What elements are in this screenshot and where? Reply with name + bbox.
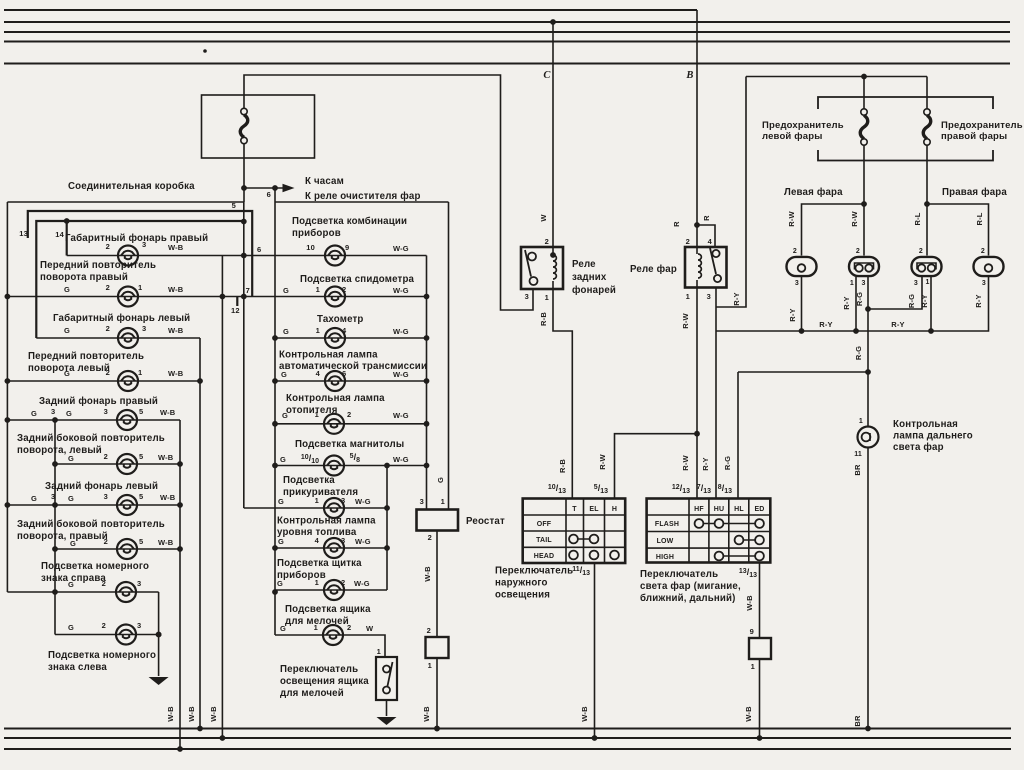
headlamp H3 right inner bbox=[912, 257, 942, 276]
wire: power bus line 3 bbox=[4, 31, 1010, 33]
junction box outline left edge bbox=[6, 202, 8, 592]
svg-text:11: 11 bbox=[854, 451, 862, 458]
svg-text:Соединительная коробка: Соединительная коробка bbox=[68, 181, 195, 192]
table 1 HEAD contacts bbox=[569, 551, 578, 560]
svg-text:T: T bbox=[572, 506, 577, 513]
svg-text:W-G: W-G bbox=[393, 370, 409, 379]
svg-text:G: G bbox=[31, 409, 37, 418]
wire row 6: rear side turn repeater left, y=464 bbox=[55, 463, 180, 465]
junction to instrument-panel box pin 6 bbox=[272, 185, 278, 191]
svg-text:R-Y: R-Y bbox=[732, 292, 741, 305]
svg-text:2: 2 bbox=[347, 623, 351, 632]
svg-text:3: 3 bbox=[51, 407, 55, 416]
svg-text:4: 4 bbox=[708, 237, 713, 246]
svg-text:4: 4 bbox=[315, 536, 320, 545]
rheostat (panel light dimmer) bbox=[417, 510, 459, 531]
svg-text:W-B: W-B bbox=[160, 408, 176, 417]
wire: relay pin 1 R-W down to dimmer switch HF bbox=[696, 288, 698, 499]
wire row M8 fuel level lamp y=548 bbox=[275, 547, 387, 549]
svg-text:поворота, правый: поворота, правый bbox=[17, 531, 108, 542]
svg-text:2: 2 bbox=[427, 626, 431, 635]
svg-text:поворота правый: поворота правый bbox=[40, 272, 128, 283]
svg-text:ближний, дальний): ближний, дальний) bbox=[640, 593, 736, 604]
wire: H2 bottom pins R-Y and R-G bbox=[855, 277, 857, 331]
instrument panel box left edge bbox=[274, 202, 276, 635]
wire: R-G across to dimmer HL bbox=[738, 371, 868, 373]
wire: ED pin down to connector 9, W-B bbox=[759, 563, 761, 639]
wire: right headlamp outer feed R-L bbox=[927, 204, 989, 256]
wire: switch to ground bbox=[386, 700, 388, 716]
svg-text:3: 3 bbox=[137, 579, 141, 588]
svg-text:фонарей: фонарей bbox=[572, 285, 616, 296]
ground for licence plate lamps bbox=[149, 677, 169, 685]
svg-text:G: G bbox=[283, 327, 289, 336]
lamp M2 Подсветка спидометра bbox=[325, 287, 345, 307]
wire: rheostat pin 2 down to connector bbox=[436, 531, 438, 638]
wire row M5 heater lamp y=423.8 bbox=[275, 423, 427, 425]
wire: R-Y bus y=331 bbox=[716, 277, 989, 331]
svg-text:1: 1 bbox=[686, 292, 690, 301]
svg-text:G: G bbox=[64, 369, 70, 378]
svg-text:R: R bbox=[672, 221, 681, 227]
wire: power bus line 4 bbox=[4, 41, 1010, 43]
svg-text:TAIL: TAIL bbox=[536, 537, 552, 544]
svg-text:1: 1 bbox=[441, 497, 445, 506]
wire: lamp return rows 9-10 to ground, x=158.6 bbox=[158, 592, 160, 676]
svg-text:G: G bbox=[278, 537, 284, 546]
svg-text:3: 3 bbox=[51, 492, 55, 501]
wire: left headlamp outer feed R-W bbox=[802, 204, 865, 256]
lamp M10 Подсветка ящика для мелочей bbox=[323, 625, 343, 645]
svg-text:R-Y: R-Y bbox=[920, 294, 929, 307]
wire row M6 radio illumination y=465.5 bbox=[275, 465, 427, 467]
svg-text:12: 12 bbox=[231, 306, 240, 315]
svg-text:Подсветка номерного: Подсветка номерного bbox=[41, 561, 149, 572]
lamp L7 Задний фонарь левый bbox=[117, 495, 137, 515]
svg-text:Задний фонарь правый: Задний фонарь правый bbox=[39, 396, 158, 407]
svg-text:2: 2 bbox=[341, 578, 345, 587]
svg-text:G: G bbox=[282, 411, 288, 420]
svg-text:W: W bbox=[539, 214, 548, 222]
svg-text:R-W: R-W bbox=[787, 210, 796, 226]
fuse right headlamp bbox=[926, 77, 928, 110]
headlamp H4 right outer bbox=[974, 257, 1004, 276]
lamp Контрольная лампа дальнего света фар bbox=[858, 427, 879, 448]
svg-text:3: 3 bbox=[707, 292, 711, 301]
svg-text:ED: ED bbox=[754, 506, 764, 513]
table 2 FLASH contacts bbox=[699, 523, 760, 525]
svg-text:HIGH: HIGH bbox=[656, 554, 674, 561]
svg-text:G: G bbox=[68, 454, 74, 463]
svg-text:5: 5 bbox=[139, 407, 143, 416]
svg-text:2: 2 bbox=[981, 248, 985, 255]
wire: indicator to ground bus BR bbox=[867, 448, 869, 729]
svg-text:3: 3 bbox=[341, 536, 345, 545]
svg-text:Подсветка магнитолы: Подсветка магнитолы bbox=[295, 439, 404, 450]
svg-text:света фар (мигание,: света фар (мигание, bbox=[640, 581, 741, 592]
svg-text:1: 1 bbox=[138, 283, 142, 292]
svg-text:G: G bbox=[283, 286, 289, 295]
svg-text:1: 1 bbox=[315, 578, 319, 587]
switch table Переключатель наружного освещения bbox=[523, 499, 626, 564]
svg-text:2: 2 bbox=[545, 237, 549, 246]
svg-text:знака слева: знака слева bbox=[48, 662, 107, 673]
svg-text:3: 3 bbox=[137, 621, 141, 630]
headlamp H2 left inner bbox=[849, 257, 879, 276]
svg-text:правой фары: правой фары bbox=[941, 131, 1007, 142]
svg-text:задних: задних bbox=[572, 272, 607, 283]
svg-text:6: 6 bbox=[267, 190, 271, 199]
ink speck bbox=[203, 49, 207, 53]
lamp M8 Контрольная лампа уровня топлива bbox=[324, 538, 344, 558]
svg-text:R-W: R-W bbox=[598, 453, 607, 469]
svg-text:2: 2 bbox=[104, 452, 108, 461]
svg-text:3: 3 bbox=[914, 280, 918, 287]
wire row M9 panel illumination y=590 bbox=[275, 589, 387, 591]
svg-text:HF: HF bbox=[694, 506, 704, 513]
wire row 8: rear side turn repeater right, y=549 bbox=[55, 548, 180, 550]
lamp M5 Контрольная лампа отопителя bbox=[324, 414, 344, 434]
svg-text:G: G bbox=[66, 409, 72, 418]
svg-text:G: G bbox=[64, 285, 70, 294]
svg-text:К часам: К часам bbox=[305, 176, 344, 187]
svg-text:2: 2 bbox=[104, 537, 108, 546]
svg-text:W-B: W-B bbox=[168, 369, 184, 378]
svg-text:1: 1 bbox=[377, 647, 381, 656]
svg-text:R-G: R-G bbox=[907, 294, 916, 308]
wire: fuse feed line y=76.5 bbox=[746, 76, 927, 78]
svg-text:W-G: W-G bbox=[393, 244, 409, 253]
wire: W-B return rows 3-4, x=200 bbox=[199, 338, 201, 729]
svg-text:W-B: W-B bbox=[423, 566, 432, 582]
svg-text:света фар: света фар bbox=[893, 442, 944, 453]
svg-text:W-G: W-G bbox=[355, 537, 371, 546]
lamp L10 Подсветка номерного знака слева bbox=[116, 625, 136, 645]
svg-text:W-B: W-B bbox=[580, 706, 589, 722]
svg-text:13: 13 bbox=[19, 229, 28, 238]
svg-text:Подсветка: Подсветка bbox=[283, 475, 335, 486]
svg-text:Подсветка ящика: Подсветка ящика bbox=[285, 604, 371, 615]
svg-text:3: 3 bbox=[420, 497, 424, 506]
wire: relay pin 1 R-B to light switch EL bbox=[553, 289, 572, 499]
svg-text:1: 1 bbox=[315, 496, 319, 505]
svg-text:К реле очистителя фар: К реле очистителя фар bbox=[305, 191, 421, 202]
svg-text:1: 1 bbox=[316, 285, 320, 294]
svg-text:1: 1 bbox=[850, 280, 854, 287]
svg-text:W-G: W-G bbox=[393, 455, 409, 464]
svg-text:3: 3 bbox=[525, 292, 529, 301]
svg-text:6: 6 bbox=[342, 369, 346, 378]
wire: power bus line 5 bbox=[4, 63, 1010, 65]
svg-text:EL: EL bbox=[589, 506, 599, 513]
svg-text:Контрольная: Контрольная bbox=[893, 419, 958, 430]
wire row M3 tachometer y=338 bbox=[275, 337, 427, 339]
lamp L5 Задний фонарь правый bbox=[117, 410, 137, 430]
switch table Переключатель света фар bbox=[647, 499, 771, 563]
wire: power bus line 2 bbox=[4, 21, 1010, 23]
wire row 3: side marker lamp left, y=338 bbox=[36, 337, 200, 339]
svg-text:6: 6 bbox=[257, 245, 261, 254]
svg-text:Реостат: Реостат bbox=[466, 516, 505, 527]
svg-text:Габаритный фонарь левый: Габаритный фонарь левый bbox=[53, 313, 190, 324]
wire: power bus line 1 (top) bbox=[4, 9, 697, 11]
svg-text:G: G bbox=[277, 579, 283, 588]
wire row 4: front turn repeater left, y=381 bbox=[6, 380, 200, 382]
svg-text:W-B: W-B bbox=[158, 538, 174, 547]
fuse bracket top bbox=[818, 97, 993, 109]
fuse bracket bottom bbox=[818, 150, 993, 161]
svg-text:G: G bbox=[68, 580, 74, 589]
svg-text:прикуривателя: прикуривателя bbox=[283, 487, 358, 498]
svg-text:3: 3 bbox=[104, 492, 108, 501]
svg-text:G: G bbox=[280, 624, 286, 633]
svg-text:2: 2 bbox=[106, 324, 110, 333]
svg-text:Задний боковой повторитель: Задний боковой повторитель bbox=[17, 519, 165, 530]
svg-text:R-G: R-G bbox=[723, 456, 732, 470]
svg-text:W-B: W-B bbox=[745, 595, 754, 611]
svg-text:W-G: W-G bbox=[355, 497, 371, 506]
connector 9 (dimmer switch) bbox=[749, 638, 771, 659]
svg-text:1: 1 bbox=[316, 326, 320, 335]
svg-text:R: R bbox=[702, 215, 711, 221]
svg-text:W-G: W-G bbox=[393, 411, 409, 420]
svg-text:приборов: приборов bbox=[292, 228, 341, 239]
svg-text:3: 3 bbox=[982, 280, 986, 287]
wire row 9: licence plate lamp right, y=592 bbox=[7, 591, 158, 593]
svg-text:R-Y: R-Y bbox=[819, 320, 832, 329]
svg-text:2: 2 bbox=[793, 248, 797, 255]
wire: vertical G link x=55 rows 5-10 bbox=[54, 420, 56, 635]
svg-text:W-G: W-G bbox=[393, 327, 409, 336]
relay Реле задних фонарей bbox=[521, 247, 563, 289]
svg-text:2: 2 bbox=[106, 368, 110, 377]
svg-text:9: 9 bbox=[345, 243, 349, 252]
svg-text:1: 1 bbox=[428, 661, 432, 670]
svg-text:W-B: W-B bbox=[158, 453, 174, 462]
svg-text:W-G: W-G bbox=[393, 286, 409, 295]
svg-text:4: 4 bbox=[342, 326, 347, 335]
table 2 HIGH contacts bbox=[719, 555, 760, 557]
svg-text:5: 5 bbox=[139, 537, 143, 546]
wire row 5: rear lamp right, y=420 bbox=[6, 419, 180, 421]
wire row 2: front turn repeater right, y=296.5 bbox=[6, 296, 427, 298]
svg-text:3: 3 bbox=[795, 280, 799, 287]
svg-text:W-B: W-B bbox=[422, 706, 431, 722]
lamp M1 Подсветка комбинации приборов bbox=[325, 246, 345, 266]
svg-text:3: 3 bbox=[341, 496, 345, 505]
svg-text:R-Y: R-Y bbox=[891, 320, 904, 329]
wire row M4 AT lamp y=381 bbox=[275, 380, 427, 382]
svg-text:H: H bbox=[612, 506, 617, 513]
svg-text:G: G bbox=[70, 539, 76, 548]
svg-text:Подсветка номерного: Подсветка номерного bbox=[48, 650, 156, 661]
wire: H pin R-W up and over to headlamp relay wire bbox=[615, 434, 698, 499]
svg-text:2: 2 bbox=[919, 248, 923, 255]
lamp M3 Тахометр bbox=[325, 328, 345, 348]
connector 2 (rheostat) bbox=[426, 637, 449, 658]
wire: R-G net high beam bbox=[867, 277, 869, 372]
svg-text:R-Y: R-Y bbox=[788, 308, 797, 321]
svg-text:2: 2 bbox=[856, 248, 860, 255]
wire: fuse top to node at x=500 bbox=[244, 75, 533, 310]
svg-text:2: 2 bbox=[342, 285, 346, 294]
svg-text:Подсветка комбинации: Подсветка комбинации bbox=[292, 216, 407, 227]
svg-text:W-B: W-B bbox=[168, 326, 184, 335]
svg-text:2: 2 bbox=[106, 283, 110, 292]
wire: EL pin down to ground bus W-B bbox=[594, 563, 596, 738]
svg-text:Предохранитель: Предохранитель bbox=[762, 120, 844, 131]
svg-text:W-B: W-B bbox=[168, 243, 184, 252]
wire: node B down to headlamp relay bbox=[696, 10, 698, 247]
svg-text:14: 14 bbox=[55, 230, 64, 239]
svg-text:Предохранитель: Предохранитель bbox=[941, 120, 1023, 131]
svg-text:R-Y: R-Y bbox=[842, 296, 851, 309]
svg-text:3: 3 bbox=[142, 324, 146, 333]
svg-text:9: 9 bbox=[750, 627, 754, 636]
svg-text:1: 1 bbox=[859, 418, 863, 425]
wire arrow: to clock and headlamp washer relay bbox=[244, 187, 283, 189]
wire row 1: side marker lamp right, y=255.5 bbox=[67, 255, 427, 257]
lamp L3 Габаритный фонарь левый bbox=[118, 328, 138, 348]
svg-text:1: 1 bbox=[138, 368, 142, 377]
lamp M9 Подсветка щитка приборов bbox=[324, 580, 344, 600]
lamp M4 Контрольная лампа автоматической трансмиссии bbox=[325, 371, 345, 391]
svg-text:W-B: W-B bbox=[209, 706, 218, 722]
lamp L2 Передний повторитель поворота правый bbox=[118, 287, 138, 307]
svg-text:поворота, левый: поворота, левый bbox=[17, 445, 102, 456]
svg-text:1: 1 bbox=[315, 410, 319, 419]
svg-text:освещения ящика: освещения ящика bbox=[280, 676, 369, 687]
wire: fuse output down to junction box pin 5 bbox=[243, 144, 245, 202]
svg-text:Реле: Реле bbox=[572, 259, 596, 270]
wire: connector 9 to ground bus W-B bbox=[759, 659, 761, 738]
svg-text:Переключатель: Переключатель bbox=[280, 664, 358, 675]
svg-text:Подсветка щитка: Подсветка щитка bbox=[277, 558, 362, 569]
wire: W-G collector x=387 lower rows bbox=[386, 466, 388, 591]
svg-text:G: G bbox=[281, 370, 287, 379]
instrument panel box top edge bbox=[275, 201, 449, 203]
wire: ground bus line 3 bbox=[4, 748, 1011, 750]
svg-text:R-B: R-B bbox=[539, 312, 548, 326]
lamp L6 Задний боковой повторитель поворота левый bbox=[117, 454, 137, 474]
svg-text:W-B: W-B bbox=[160, 493, 176, 502]
svg-text:Задний боковой повторитель: Задний боковой повторитель bbox=[17, 433, 165, 444]
svg-text:OFF: OFF bbox=[537, 521, 552, 528]
svg-text:Передний повторитель: Передний повторитель bbox=[28, 351, 144, 362]
svg-text:R-W: R-W bbox=[681, 312, 690, 328]
svg-text:2: 2 bbox=[106, 242, 110, 251]
junction: branch to clock/washer relay bbox=[241, 185, 247, 191]
svg-text:R-W: R-W bbox=[681, 454, 690, 470]
svg-text:1: 1 bbox=[751, 662, 755, 671]
svg-text:Подсветка спидометра: Подсветка спидометра bbox=[300, 274, 415, 285]
svg-text:Задний фонарь левый: Задний фонарь левый bbox=[45, 481, 158, 492]
svg-text:3: 3 bbox=[142, 240, 146, 249]
wire: pin 12 stub bbox=[236, 297, 238, 307]
svg-text:W: W bbox=[366, 624, 374, 633]
svg-text:3: 3 bbox=[862, 280, 866, 287]
svg-text:G: G bbox=[436, 477, 445, 483]
pin 14 stub wire bbox=[66, 221, 68, 256]
wire: G right edge of panel box down to rheostat pin 1 bbox=[448, 202, 450, 510]
svg-text:наружного: наружного bbox=[495, 578, 548, 589]
svg-text:Реле фар: Реле фар bbox=[630, 264, 677, 275]
lamp M6 Подсветка магнитолы bbox=[324, 456, 344, 476]
wire row 7: rear lamp left, y=505 bbox=[6, 504, 180, 506]
svg-text:R-W: R-W bbox=[850, 210, 859, 226]
svg-text:Контрольная лампа: Контрольная лампа bbox=[279, 350, 378, 361]
junction box outline top edge bbox=[7, 201, 244, 203]
svg-text:BR: BR bbox=[853, 715, 862, 727]
wire: branch up to headlamp fuses bbox=[716, 77, 746, 308]
svg-text:10: 10 bbox=[306, 243, 315, 252]
svg-text:2: 2 bbox=[686, 237, 690, 246]
svg-text:R-Y: R-Y bbox=[974, 294, 983, 307]
svg-text:2: 2 bbox=[428, 533, 432, 542]
svg-text:HU: HU bbox=[714, 506, 724, 513]
wire: ground bus line 1 bbox=[4, 728, 1011, 730]
svg-text:G: G bbox=[68, 494, 74, 503]
svg-text:BR: BR bbox=[853, 464, 862, 476]
svg-text:Левая фара: Левая фара bbox=[784, 187, 843, 198]
svg-text:G: G bbox=[68, 623, 74, 632]
lamp L1 Габаритный фонарь правый bbox=[118, 246, 138, 266]
svg-text:4: 4 bbox=[316, 369, 321, 378]
wire: W-B return rows 5-8, x=180 bbox=[179, 420, 181, 749]
svg-text:Правая фара: Правая фара bbox=[942, 187, 1007, 198]
fusible link FL main bbox=[240, 108, 248, 143]
svg-text:освещения: освещения bbox=[495, 590, 550, 601]
svg-text:W-B: W-B bbox=[187, 706, 196, 722]
svg-text:R-L: R-L bbox=[975, 212, 984, 225]
fusible-link box (main fuse) bbox=[202, 95, 315, 158]
relay Реле фар bbox=[685, 247, 727, 288]
svg-text:G: G bbox=[280, 455, 286, 464]
svg-text:Тахометр: Тахометр bbox=[317, 314, 364, 325]
svg-text:G: G bbox=[64, 326, 70, 335]
node C junction on bus 2 bbox=[550, 19, 556, 25]
wire: ground bus line 2 bbox=[4, 737, 1011, 739]
svg-text:Контрольная лампа: Контрольная лампа bbox=[277, 516, 376, 527]
wire row M10 glovebox lamp y=635 bbox=[275, 635, 385, 657]
wire: W-B return rows 1-2, x=222 bbox=[221, 256, 223, 739]
svg-text:FLASH: FLASH bbox=[655, 521, 679, 528]
table 2 LOW contacts bbox=[739, 539, 760, 541]
svg-text:LOW: LOW bbox=[657, 538, 674, 545]
svg-text:R-L: R-L bbox=[913, 212, 922, 225]
svg-text:W-B: W-B bbox=[166, 706, 175, 722]
lamp L8 Задний боковой повторитель поворота правый bbox=[117, 539, 137, 559]
table 1 TAIL contacts bbox=[574, 538, 595, 540]
svg-text:B: B bbox=[685, 70, 693, 81]
svg-text:2: 2 bbox=[102, 621, 106, 630]
svg-text:R-Y: R-Y bbox=[701, 457, 710, 470]
headlamp H1 left outer bbox=[787, 257, 817, 276]
svg-text:1: 1 bbox=[545, 293, 549, 302]
svg-text:G: G bbox=[31, 494, 37, 503]
svg-text:R-G: R-G bbox=[854, 346, 863, 360]
wire: H3 bottom pins R-G and R-Y bbox=[930, 277, 932, 331]
svg-text:W-G: W-G bbox=[354, 579, 370, 588]
svg-text:Габаритный фонарь правый: Габаритный фонарь правый bbox=[65, 233, 208, 244]
glovebox lamp switch S2 bbox=[376, 657, 397, 700]
wire row M7 cigarette lighter y=508 bbox=[244, 507, 387, 509]
svg-text:Переключатель: Переключатель bbox=[495, 566, 573, 577]
svg-text:W-B: W-B bbox=[744, 706, 753, 722]
svg-text:5: 5 bbox=[139, 492, 143, 501]
wire: connector 2 to ground bus, W-B bbox=[436, 658, 438, 729]
svg-text:7: 7 bbox=[246, 286, 250, 295]
